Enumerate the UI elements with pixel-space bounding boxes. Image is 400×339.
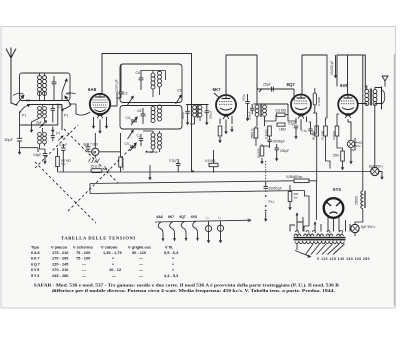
- tube 6A8 envelope: [90, 94, 110, 119]
- capacitor 50uF: [17, 138, 22, 141]
- wire 6K7 pins: [220, 116, 232, 128]
- svg-text:V 110 125 140 160 220 280: V 110 125 140 160 220 280: [317, 257, 370, 261]
- svg-text:0,5µF: 0,5µF: [33, 153, 41, 157]
- svg-text:C2: C2: [67, 92, 71, 96]
- svg-text:V griglia osc: V griglia osc: [128, 245, 152, 250]
- svg-text:2500 Ω: 2500 Ω: [251, 128, 255, 139]
- svg-text:200µF: 200µF: [280, 149, 289, 153]
- wire det bottom: [256, 126, 270, 148]
- wire band3: [143, 131, 160, 152]
- switch C2: [13, 93, 25, 106]
- wire IF1 coil leads: [190, 117, 200, 124]
- arrow 10000uF: [334, 72, 337, 78]
- wire IF1 top: [186, 104, 209, 106]
- svg-text:P.U.: P.U.: [269, 200, 275, 204]
- svg-text:C2: C2: [20, 93, 24, 97]
- svg-text:L₁: L₁: [207, 216, 210, 220]
- transformer T3 primary: [38, 133, 42, 144]
- wire grid lead to 6A8: [70, 104, 90, 115]
- svg-text:25 Ω o: 25 Ω o: [91, 164, 101, 168]
- svg-text:0,1µF: 0,1µF: [288, 122, 296, 126]
- wire bank bottom: [317, 136, 343, 181]
- tube 6V5 envelope: [338, 95, 358, 119]
- wire antenna branch down: [19, 113, 21, 148]
- power transformer secondary row: [294, 234, 344, 236]
- power transformer core: [294, 237, 346, 239]
- resistor 2500 ohm: [254, 128, 258, 138]
- svg-text:C6: C6: [136, 71, 140, 75]
- dashed diamond A2: [68, 146, 133, 211]
- svg-text:6K7: 6K7: [168, 215, 174, 219]
- node P1 right: [69, 103, 71, 105]
- lamp excitation: [347, 140, 354, 147]
- switch C3: [128, 96, 134, 106]
- dial lamp 2 arrow: [219, 237, 222, 243]
- svg-text:V fil.: V fil.: [165, 245, 173, 250]
- capacitor C9: [139, 134, 143, 146]
- capacitor motor: [86, 147, 91, 149]
- svg-text:—: —: [139, 267, 143, 272]
- wire 5Y3 plate leads: [328, 217, 339, 232]
- svg-text:×100µF: ×100µF: [148, 150, 158, 154]
- resistor 0.05M: [294, 179, 309, 183]
- IF transformer 1 primary: [193, 106, 197, 117]
- capacitor 0.1uF coupling: [308, 129, 312, 131]
- svg-text:50.000: 50.000: [257, 148, 261, 158]
- svg-text:6Q7: 6Q7: [31, 261, 40, 266]
- svg-text:»: »: [172, 256, 174, 261]
- svg-text:6K7: 6K7: [213, 87, 222, 92]
- wire 8uF top leads: [375, 105, 382, 173]
- field coil 25000: [361, 191, 366, 209]
- transformer T1 primary: [38, 76, 42, 96]
- svg-text:C8: C8: [137, 109, 141, 113]
- capacitor Ca: [52, 76, 57, 90]
- capacitor 0.5uF: [43, 154, 47, 156]
- resistor 0.1M 1W: [268, 126, 272, 136]
- svg-text:1000 µF: 1000 µF: [115, 79, 119, 92]
- svg-text:170 - 210: 170 - 210: [52, 267, 68, 272]
- svg-text:6K7: 6K7: [31, 256, 40, 261]
- svg-text:75 - 100: 75 - 100: [76, 250, 90, 255]
- capacitor 100pF: [250, 104, 254, 114]
- box oscillator lower: [120, 106, 182, 130]
- svg-text:10.000 µF: 10.000 µF: [330, 61, 334, 75]
- resistor 10M half: [119, 157, 123, 167]
- wire 6V5 cath: [343, 138, 356, 164]
- switch C5: [176, 95, 182, 105]
- node 2uF: [41, 124, 43, 126]
- power transformer primary row: [295, 242, 344, 244]
- svg-text:5Y3: 5Y3: [333, 187, 341, 192]
- wire 6K7 grid top: [214, 86, 226, 98]
- ground antenna branch: [18, 149, 21, 155]
- coil osc2 b: [158, 105, 162, 121]
- svg-text:—: —: [82, 267, 86, 272]
- IF transformer 2 primary: [255, 105, 259, 116]
- wire top bus section 4: [337, 55, 365, 104]
- node P1: [19, 111, 21, 113]
- resistor bank r3: [335, 126, 339, 136]
- coil osc2 a: [151, 107, 155, 123]
- svg-text:6Q7: 6Q7: [287, 82, 296, 87]
- svg-text:0,05MΩ½w: 0,05MΩ½w: [286, 175, 303, 179]
- svg-text:—: —: [139, 261, 143, 266]
- ground rail A mid: [149, 165, 151, 174]
- heater hook 6A8: [158, 222, 164, 242]
- svg-text:CV₂: CV₂: [125, 142, 132, 146]
- heater hook 6V5: [193, 221, 199, 241]
- svg-text:1MΩ: 1MΩ: [279, 128, 286, 132]
- trimmer 2uF arrow: [40, 121, 47, 129]
- ground 6A8 g: [98, 128, 101, 134]
- svg-text:L₂: L₂: [219, 216, 222, 220]
- transformer T2 primary: [38, 107, 42, 118]
- capacitor 0.1uF mid: [176, 159, 181, 172]
- antenna mark top right: [382, 76, 388, 87]
- capacitor 200uF det: [275, 144, 280, 155]
- ground T2 right: [51, 127, 54, 133]
- wire 5Y3 to rail: [304, 191, 309, 232]
- ground 6K7 screen: [230, 126, 233, 132]
- ground 0.5uF: [43, 158, 46, 164]
- wire long HT vertical: [355, 104, 363, 225]
- wire IF2 top bar: [254, 89, 289, 115]
- switch C1b right: [61, 105, 72, 112]
- svg-text:—: —: [139, 273, 143, 278]
- wire 2uF line: [20, 104, 58, 126]
- wire 10M: [120, 133, 122, 172]
- antenna: [6, 48, 16, 105]
- svg-text:6V5: 6V5: [340, 83, 348, 88]
- dashed diamond D2: [64, 129, 118, 183]
- svg-text:P1: P1: [64, 114, 68, 118]
- svg-text:V schermo: V schermo: [73, 245, 94, 250]
- wire psu res: [289, 185, 291, 204]
- ground 6V5 cath: [349, 158, 352, 164]
- svg-text:5,5 - 6,3: 5,5 - 6,3: [164, 250, 179, 255]
- svg-text:6V5: 6V5: [191, 215, 197, 219]
- wire 6Q7 pins: [296, 117, 307, 131]
- svg-text:1,45 - 1,75: 1,45 - 1,75: [103, 250, 122, 255]
- ground 6A8 s: [105, 123, 108, 129]
- wire 0.5M det2: [213, 150, 215, 173]
- transformer T2 secondary: [43, 107, 47, 118]
- capacitor 250pF left IF1: [185, 105, 189, 120]
- svg-text:C5: C5: [177, 89, 181, 93]
- power transformer taps: [295, 244, 345, 258]
- svg-text:»: »: [172, 261, 174, 266]
- ground 50ohm: [341, 164, 344, 170]
- wire T1 leads: [32, 73, 63, 149]
- IF2 core: [260, 105, 261, 118]
- wire top bus section 2: [226, 55, 257, 95]
- svg-text:10MΩ1w: 10MΩ1w: [121, 157, 125, 170]
- svg-text:100µF: 100µF: [248, 111, 252, 120]
- svg-text:10 - 12: 10 - 12: [109, 267, 122, 272]
- tube 6Q7 envelope: [291, 95, 311, 119]
- wire 6V5 pins: [348, 104, 367, 141]
- ground 8uF top: [380, 174, 383, 180]
- switch C2b right: [64, 93, 75, 105]
- coil band3 b: [158, 133, 162, 149]
- coil osc1 a: [151, 73, 155, 89]
- wire 8uF lower lead: [354, 233, 356, 236]
- svg-text:20000µF: 20000µF: [273, 140, 286, 144]
- wire 25pF link: [258, 89, 295, 100]
- wire 10000uF link: [335, 55, 337, 72]
- capacitor C6: [139, 70, 144, 90]
- ground T2 left: [30, 127, 33, 133]
- svg-text:8µF 500 v: 8µF 500 v: [369, 164, 384, 168]
- svg-text:0,5MΩ: 0,5MΩ: [332, 130, 336, 140]
- svg-text:0,1MΩ: 0,1MΩ: [265, 129, 269, 139]
- svg-text:0,5 MΩ: 0,5 MΩ: [205, 159, 216, 163]
- svg-text:CV₁: CV₁: [126, 116, 133, 120]
- svg-text:0,1MΩ: 0,1MΩ: [317, 96, 321, 106]
- ground det1: [260, 158, 263, 164]
- dial lamp 2: [217, 225, 223, 231]
- svg-text:8µF 7.000: 8µF 7.000: [84, 142, 99, 146]
- switch C1: [20, 104, 31, 112]
- resistor 6K7 cathode: [218, 126, 222, 136]
- capacitor grid 6A8: [117, 64, 123, 98]
- IF1 core: [197, 105, 198, 118]
- tube 5Y3 envelope: [324, 198, 344, 218]
- svg-text:90 - 110: 90 - 110: [132, 250, 146, 255]
- wire after 0.05M: [309, 181, 317, 220]
- svg-text:245 - 280: 245 - 280: [52, 273, 68, 278]
- arrow AVC: [246, 115, 249, 121]
- secondary lead curls: [295, 230, 342, 233]
- svg-text:4,4 - 5,3: 4,4 - 5,3: [164, 273, 179, 278]
- svg-text:2µF: 2µF: [36, 121, 42, 125]
- wire band2 top: [27, 105, 62, 131]
- dashed diamond A1: [35, 125, 78, 168]
- rail C: [90, 184, 305, 194]
- svg-text:6A8: 6A8: [31, 250, 40, 255]
- svg-text:0,1µF: 0,1µF: [59, 143, 67, 147]
- svg-text:50µF: 50µF: [5, 138, 14, 142]
- wire IF2 leads: [257, 116, 265, 126]
- box RF input band1: [20, 73, 71, 101]
- svg-text:(×): (×): [56, 131, 60, 135]
- svg-text:—: —: [139, 256, 143, 261]
- svg-text:6Q7: 6Q7: [180, 215, 186, 219]
- svg-text:6A8: 6A8: [88, 87, 97, 92]
- dial lamp 2 wires: [220, 221, 222, 237]
- svg-text:0,1µ: 0,1µ: [301, 129, 307, 133]
- motor M: [92, 148, 99, 155]
- dashed PU chain: [265, 161, 267, 216]
- heater bus: [155, 219, 251, 222]
- svg-text:120 - 145: 120 - 145: [52, 261, 69, 266]
- coil band3 a: [151, 133, 155, 149]
- resistor 0.5M half w: [56, 157, 60, 167]
- transformer T1 secondary: [43, 76, 47, 96]
- svg-text:250µ: 250µ: [181, 112, 185, 119]
- svg-text:6V5: 6V5: [31, 267, 40, 272]
- svg-text:6A8: 6A8: [157, 215, 163, 219]
- trimmer mark left: [58, 135, 64, 140]
- rail A: [58, 171, 371, 174]
- svg-text:C3: C3: [123, 92, 127, 96]
- dial lamp 1 wires: [208, 221, 210, 237]
- heater hook 6K7: [170, 222, 176, 242]
- svg-text:—: —: [112, 273, 116, 278]
- IF transformer 2 secondary: [263, 105, 267, 116]
- svg-text:»: »: [112, 261, 114, 266]
- resistor bank r1: [315, 126, 319, 136]
- dial lamp 1 arrow: [207, 237, 210, 243]
- wire detector: [265, 115, 297, 121]
- svg-text:8µF 500 v: 8µF 500 v: [361, 225, 376, 229]
- wire motor: [88, 133, 121, 158]
- scan edge artifact: [393, 54, 395, 306]
- resistor 0.1M plate 6Q7: [313, 93, 316, 105]
- table header: [31, 245, 173, 250]
- capacitor C8: [141, 108, 146, 124]
- node band3: [146, 151, 148, 153]
- output transformer primary: [365, 90, 369, 106]
- wire top bus section 3: [301, 55, 327, 95]
- svg-text:250µF: 250µF: [209, 110, 213, 119]
- output transformer core: [370, 89, 371, 106]
- svg-text:V placca: V placca: [51, 245, 68, 250]
- svg-text:75 - 100: 75 - 100: [76, 256, 90, 261]
- trimmer CV2: [130, 142, 137, 151]
- capacitor 25pF right of 6K7: [245, 94, 249, 115]
- IF transformer 1 secondary: [198, 106, 202, 117]
- wire 0.1M plate: [314, 88, 316, 113]
- trimmer CV1: [131, 116, 138, 125]
- coil osc1 b: [158, 71, 162, 87]
- svg-text:C1: C1: [58, 105, 62, 109]
- speaker cone: [382, 87, 385, 110]
- ground psu res: [288, 204, 291, 210]
- svg-text:5Y3: 5Y3: [31, 273, 40, 278]
- arrow PU: [264, 216, 267, 222]
- capacitor 20000: [267, 136, 271, 145]
- electrolytic 8uF lower: [351, 224, 359, 232]
- dial lamp 1: [205, 225, 211, 231]
- wire left res: [58, 144, 64, 172]
- svg-text:10.000: 10.000: [321, 130, 325, 140]
- transformer T3 secondary: [43, 133, 47, 144]
- svg-text:M: M: [93, 151, 96, 155]
- svg-text:170 - 200: 170 - 200: [52, 256, 68, 261]
- heater hook 6Q7: [181, 221, 187, 241]
- svg-text:differisce per il mobile diver: differisce per il mobile diverso. Potenz…: [52, 288, 335, 293]
- ground IF1 right cap: [205, 119, 208, 125]
- svg-text:TABELLA DELLE TENSIONI: TABELLA DELLE TENSIONI: [61, 236, 136, 241]
- svg-text:20000 µF: 20000 µF: [269, 187, 283, 191]
- ground IF1 left cap: [186, 119, 189, 125]
- svg-text:V catodo: V catodo: [101, 245, 118, 250]
- tube 6K7 envelope: [216, 95, 236, 119]
- wire psu left verticals: [290, 213, 350, 232]
- resistor 0.5M detector: [277, 113, 286, 116]
- resistor 50000: [260, 146, 264, 156]
- wire 0.5uF: [44, 149, 46, 158]
- wire to band2 box: [20, 148, 39, 152]
- capacitor 250pF right IF1: [205, 105, 209, 120]
- svg-text:25000: 25000: [354, 196, 358, 205]
- node rail A x193: [192, 170, 194, 172]
- resistor 1M diag: [277, 123, 285, 126]
- wire osc1: [141, 71, 166, 98]
- wire top bus section 1: [102, 54, 192, 172]
- svg-text:—: —: [82, 273, 86, 278]
- svg-text:50.000: 50.000: [312, 130, 316, 140]
- capacitor 0.1uF left: [61, 148, 66, 150]
- svg-text:»: »: [172, 267, 174, 272]
- svg-text:0,1µƒ: 0,1µƒ: [169, 159, 177, 163]
- svg-text:Tipo: Tipo: [31, 245, 40, 250]
- motor hatch: [89, 159, 100, 163]
- ground 6K7 g3: [224, 128, 227, 134]
- svg-text:SAFAR - Mod. 536 e mod. 537 -: SAFAR - Mod. 536 e mod. 537 - Tre gamme:…: [34, 283, 339, 288]
- capacitor Cb: [51, 105, 55, 123]
- resistor 50ohm: [341, 151, 345, 161]
- ground 6Q7 c: [294, 133, 297, 139]
- resistor 1M 1W psu: [288, 192, 292, 202]
- svg-text:50Ω: 50Ω: [333, 154, 340, 158]
- ground det2: [275, 155, 278, 161]
- wire 6A8 pins: [94, 92, 118, 128]
- ground 6K7 cathode: [218, 137, 221, 143]
- capacitor 25uF series: [272, 87, 274, 92]
- svg-text:P1: P1: [22, 114, 26, 118]
- svg-text:»: »: [112, 256, 114, 261]
- svg-text:—: —: [82, 261, 86, 266]
- resistor 25ohm 1W: [91, 169, 102, 173]
- dashed diamond D1: [35, 162, 96, 223]
- output transformer secondary: [373, 90, 377, 106]
- table rows: [31, 250, 179, 278]
- ground 6A8 cathode: [92, 123, 95, 129]
- rail B: [90, 181, 294, 184]
- box oscillator upper: [120, 64, 182, 103]
- svg-text:C1: C1: [26, 99, 30, 103]
- resistor bank r2: [324, 126, 328, 136]
- capacitor 1uF T3: [51, 131, 55, 141]
- switch S1a: [62, 78, 68, 92]
- svg-text:5Vc: 5Vc: [356, 144, 362, 148]
- electrolytic 8uF top: [371, 167, 379, 175]
- svg-text:0,5 MΩ: 0,5 MΩ: [276, 109, 287, 113]
- switch P2: [128, 130, 134, 140]
- capacitor 20000uF PU: [264, 182, 269, 188]
- wire OT leads: [365, 86, 381, 106]
- svg-text:175 - 210: 175 - 210: [52, 250, 68, 255]
- svg-text:25µF: 25µF: [263, 83, 271, 87]
- wire bank top: [309, 55, 339, 134]
- resistor 0.5M det2: [209, 163, 218, 166]
- svg-text:250µ: 250µ: [241, 94, 245, 101]
- capacitor 0.1uF 6Q7: [294, 126, 298, 133]
- label 1w arrow: [105, 166, 107, 170]
